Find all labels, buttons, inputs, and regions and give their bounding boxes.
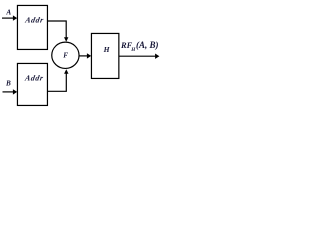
wire: input arrow B [3, 91, 14, 93]
wire: input arrow A [2, 17, 13, 19]
svg-text:Addr: Addr [24, 16, 45, 25]
block Addr (bottom) [17, 63, 47, 105]
combiner F [52, 42, 79, 68]
svg-text:F: F [63, 51, 68, 59]
wire: output arrow [119, 55, 155, 57]
block Addr (top) [17, 5, 47, 49]
wire: F to H [79, 55, 87, 57]
wire: bottom Addr box to F [47, 73, 66, 91]
svg-text:Addr: Addr [23, 74, 44, 83]
block H [91, 33, 118, 78]
wire: top Addr box to F [47, 21, 66, 38]
arrowhead into F (from top) [64, 37, 68, 41]
svg-text:A: A [5, 9, 11, 17]
arrowhead into H box [87, 53, 91, 58]
svg-text:H: H [103, 45, 111, 54]
arrowhead into F (from bottom) [64, 69, 68, 73]
svg-text:B: B [5, 80, 11, 88]
arrowhead output [155, 54, 159, 59]
arrowhead into top Addr box [13, 15, 17, 20]
arrowhead into bottom Addr box [13, 89, 17, 94]
